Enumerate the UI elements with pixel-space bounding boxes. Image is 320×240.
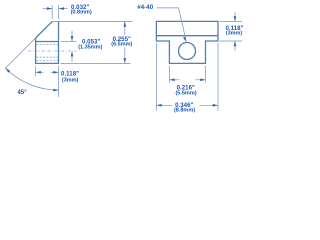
svg-text:(0.8mm): (0.8mm) <box>71 10 92 16</box>
svg-text:(6.5mm): (6.5mm) <box>111 42 132 48</box>
dim 0.255 dimension line with arrows <box>124 22 126 63</box>
dim 0.118 arrows <box>36 71 59 73</box>
dim 0.118 right top extension line <box>220 20 243 22</box>
dim 0.118 left extension line <box>35 66 37 77</box>
svg-text:45°: 45° <box>17 89 27 96</box>
svg-text:(5.5mm): (5.5mm) <box>175 91 196 97</box>
dim 0.053 down arrow <box>71 31 73 42</box>
hidden line thread bottom <box>36 56 58 58</box>
hidden line major bottom <box>36 59 58 61</box>
hidden line thread top <box>36 44 58 46</box>
svg-text:(1.35mm): (1.35mm) <box>78 45 102 51</box>
svg-text:#4-40: #4-40 <box>137 4 153 11</box>
dim 0.346 left extension line <box>155 43 157 111</box>
svg-text:(3mm): (3mm) <box>62 78 79 84</box>
dim 0.053 up arrow <box>71 51 73 62</box>
dim 0.053 step ext line <box>61 41 77 43</box>
center line <box>29 50 77 52</box>
dim 0.216 right extension line <box>205 66 207 83</box>
front view internal step line <box>156 35 218 37</box>
svg-text:(8.8mm): (8.8mm) <box>174 108 195 114</box>
dim 0.118 right arrows <box>234 12 236 21</box>
dim 0.032 right extension line <box>58 5 60 19</box>
dim 0.032 right arrow <box>59 8 68 10</box>
dim 0.032 left extension line <box>51 5 53 19</box>
dim 0.118 right extension line (also 45 deg leg) <box>58 66 60 97</box>
dim 0.032 left arrow <box>43 8 53 10</box>
svg-text:(3mm): (3mm) <box>226 31 243 37</box>
dim 0.216 arrows <box>169 79 205 81</box>
dim 0.255 top extension line <box>52 20 132 22</box>
side view outline <box>36 21 59 63</box>
dim 0.216 left extension line <box>168 66 170 83</box>
chamfer construction extension <box>5 38 36 69</box>
chamfer edge <box>36 21 53 38</box>
dim 0.346 right extension line <box>217 43 219 111</box>
step line solid <box>36 41 59 43</box>
dim 0.346 arrows <box>156 104 218 106</box>
#4-40 leader <box>157 8 186 39</box>
front view outline <box>156 21 218 63</box>
45 deg arc <box>6 68 59 90</box>
tapped hole circle <box>179 43 196 60</box>
dim 0.118 right bottom extension line <box>220 40 243 42</box>
dim 0.255 bottom extension line <box>61 62 131 64</box>
